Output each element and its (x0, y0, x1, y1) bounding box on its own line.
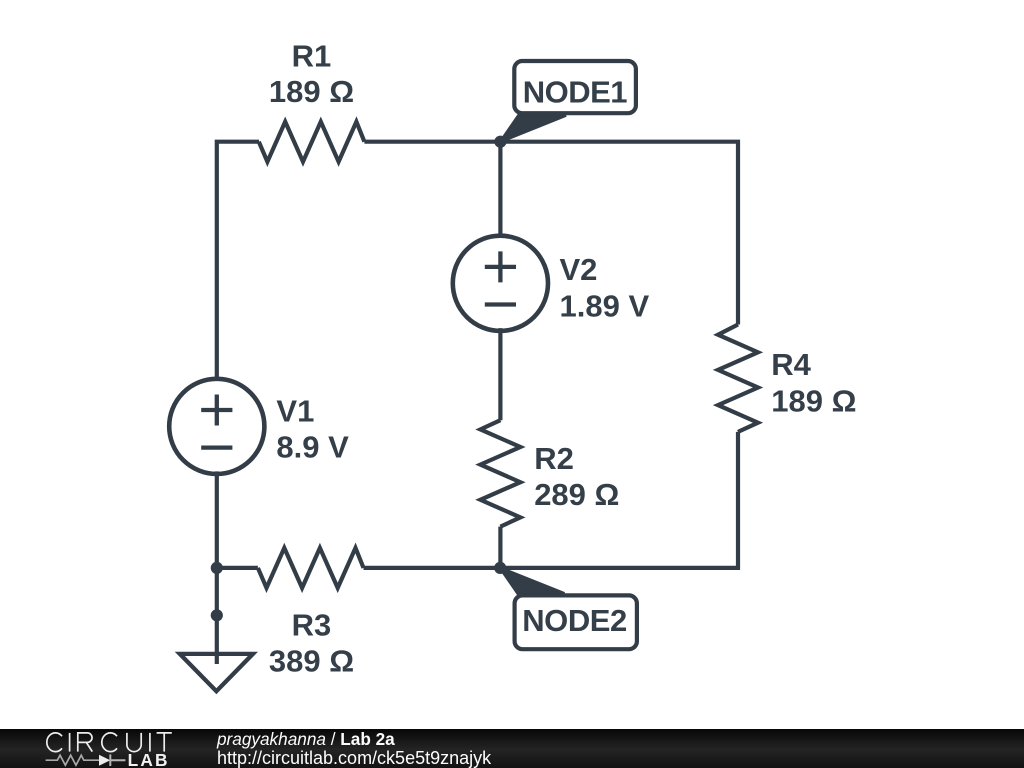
resistor R1 (259, 122, 365, 162)
resistor R3 (258, 548, 364, 588)
junction dot ground (211, 609, 223, 621)
wire R1 to NODE1 junction (364, 140, 500, 144)
V2 plus sign (485, 251, 516, 282)
svg-text:NODE2: NODE2 (522, 603, 627, 638)
wire R2 to NODE2 (498, 527, 502, 568)
svg-text:http://circuitlab.com/ck5e5t9z: http://circuitlab.com/ck5e5t9znajyk (217, 748, 492, 768)
CircuitLab logo letter C (47, 733, 62, 752)
voltage source V2 circle (453, 236, 548, 331)
wire V2 to R2 (498, 328, 502, 420)
resistor R2 (480, 420, 520, 526)
svg-text:R3: R3 (292, 607, 332, 642)
wire top-left corner (left branch top) (217, 142, 259, 382)
CircuitLab logo diode (99, 755, 110, 766)
wire R3 to NODE2 (364, 566, 501, 570)
wire junction to R3 (217, 566, 258, 570)
svg-text:R4: R4 (771, 347, 811, 382)
svg-text:8.9 V: 8.9 V (276, 429, 349, 464)
svg-text:R2: R2 (534, 441, 574, 476)
svg-text:389 Ω: 389 Ω (269, 643, 354, 678)
svg-text:289 Ω: 289 Ω (534, 477, 619, 512)
CircuitLab logo letter C 2 (102, 733, 117, 752)
svg-text:pragyakhanna / Lab 2a: pragyakhanna / Lab 2a (216, 729, 395, 749)
node NODE2 callout tail (500, 568, 564, 594)
wire NODE1 to top-right corner down to R4 (500, 142, 738, 325)
node NODE1 flag box (514, 61, 636, 113)
svg-text:V2: V2 (560, 252, 598, 287)
svg-text:V1: V1 (276, 393, 314, 428)
CircuitLab logo diode bar and wire (110, 754, 125, 766)
svg-text:LAB: LAB (128, 750, 170, 768)
ground symbol triangle (180, 654, 253, 691)
svg-text:1.89 V: 1.89 V (560, 289, 650, 324)
wire junction to ground junction (215, 568, 219, 615)
V1 minus sign (201, 445, 232, 449)
V1 plus sign (201, 395, 232, 426)
CircuitLab logo letter T (157, 733, 172, 752)
svg-text:189 Ω: 189 Ω (269, 74, 354, 109)
svg-text:NODE1: NODE1 (523, 75, 628, 110)
CircuitLab logo letter I (69, 733, 71, 752)
junction dot NODE2 (494, 562, 506, 574)
resistor R4 (718, 325, 758, 432)
voltage source V1 circle (169, 379, 264, 474)
wire NODE1 down to V2 (498, 142, 502, 239)
CircuitLab logo letter R (78, 733, 93, 752)
V2 minus sign (485, 302, 516, 306)
wire V1 to bottom junction (215, 471, 219, 568)
svg-text:189 Ω: 189 Ω (771, 383, 856, 418)
junction dot NODE1 (494, 136, 506, 148)
CircuitLab logo schematic wire with resistor (46, 755, 99, 765)
node NODE2 flag box (515, 595, 637, 649)
ground lead wire (215, 615, 219, 664)
svg-text:R1: R1 (292, 38, 332, 73)
node NODE1 callout tail (500, 115, 566, 141)
CircuitLab logo letter U (127, 733, 141, 752)
CircuitLab logo letter I 2 (149, 733, 151, 752)
wire R4 to bottom-right corner to NODE2 (500, 432, 738, 568)
footer bar (0, 729, 1024, 768)
junction dot V1/R3 (211, 562, 223, 574)
